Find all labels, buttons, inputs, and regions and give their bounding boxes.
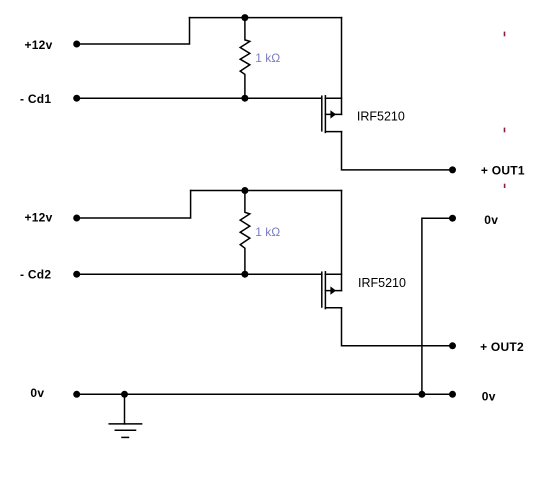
svg-text:IRF5210: IRF5210	[358, 276, 406, 290]
node +OUT2 terminal dot	[449, 342, 456, 349]
transistor Q2 IRF5210 (P-channel MOSFET)	[322, 272, 342, 309]
wire top rail 2	[191, 190, 342, 192]
junction R2 bottom / -Cd2 wire	[241, 271, 248, 278]
node 0v bottom-left terminal dot	[73, 391, 80, 398]
red tick mark 3	[504, 184, 506, 188]
node -Cd1 terminal dot	[73, 95, 80, 102]
transistor Q1 IRF5210 (P-channel MOSFET)	[322, 96, 342, 133]
node +12v (circuit 2) terminal dot	[73, 215, 80, 222]
junction R1 bottom / -Cd1 wire	[241, 95, 248, 102]
wire top rail 1	[190, 17, 342, 19]
svg-text:1 kΩ: 1 kΩ	[255, 225, 280, 239]
svg-text:0v: 0v	[30, 386, 44, 400]
junction bottom rail / ground stem	[121, 391, 128, 398]
node +12v (circuit 1) terminal dot	[73, 41, 80, 48]
node 0v upper-right terminal dot	[449, 215, 456, 222]
wire rail1 to Q1 source	[341, 18, 343, 115]
junction rail2 / R2 top	[241, 187, 248, 194]
junction bottom rail / 0v return	[418, 391, 425, 398]
node +OUT1 terminal dot	[449, 166, 456, 173]
ground symbol	[109, 394, 141, 437]
wire Q2 drain to OUT2	[342, 308, 453, 346]
svg-text:+12v: +12v	[25, 210, 53, 224]
wire 0v return (upper-right terminal down to bottom rail)	[422, 218, 453, 394]
junction rail1 / R1 top	[241, 14, 248, 21]
red tick mark 1	[504, 32, 506, 37]
svg-text:- Cd1: - Cd1	[20, 92, 51, 106]
wire rail2 to Q2 source	[341, 191, 343, 291]
svg-text:- Cd2: - Cd2	[20, 268, 51, 282]
wire bottom 0v rail	[77, 393, 453, 395]
node 0v bottom-right terminal dot	[449, 391, 456, 398]
wire -Cd1 to Q1 gate	[77, 97, 322, 99]
wire +12v feed to top rail 2	[77, 191, 191, 219]
wire -Cd2 to Q2 gate	[77, 273, 322, 275]
svg-text:1 kΩ: 1 kΩ	[255, 51, 280, 65]
wire Q1 drain to OUT1	[342, 132, 453, 170]
red tick mark 2	[504, 128, 506, 133]
wire +12v feed to top rail 1	[77, 18, 190, 44]
node -Cd2 terminal dot	[73, 271, 80, 278]
svg-text:+12v: +12v	[25, 38, 53, 52]
resistor R2 1 kOhm	[240, 191, 250, 275]
svg-text:0v: 0v	[484, 213, 498, 227]
resistor R1 1 kOhm	[240, 18, 250, 99]
svg-text:+ OUT2: + OUT2	[480, 340, 524, 354]
svg-text:0v: 0v	[482, 389, 496, 403]
svg-text:IRF5210: IRF5210	[357, 110, 405, 124]
svg-text:+ OUT1: + OUT1	[481, 164, 525, 178]
